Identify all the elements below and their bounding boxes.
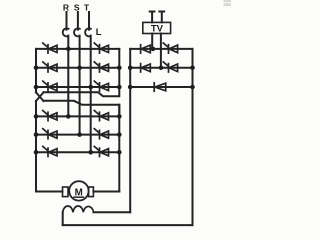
wire field left rail (129, 49, 131, 212)
motor M label (75, 187, 83, 198)
terminal TV primary right (159, 12, 164, 23)
node right rail row3 (117, 85, 122, 90)
wire upper bus to rows1-3 right rail (44, 87, 120, 96)
wire crossover X (36, 92, 44, 101)
wire row 1 (36, 48, 119, 50)
wire phase T vertical (89, 12, 91, 152)
thyristor V2 row2 left (43, 62, 57, 72)
thyristor V9 row3 right (94, 81, 108, 91)
scan smudge top-right corner (224, 0, 232, 6)
wire phase S vertical (78, 12, 80, 135)
motor brush left (63, 187, 69, 197)
node field left rail row3 (128, 85, 133, 90)
thyristor V3 row3 left (43, 81, 57, 91)
wire field row 1 (130, 48, 192, 50)
node left rail row3 (34, 85, 39, 90)
label T (84, 2, 90, 12)
node row2 phase S (77, 66, 82, 71)
node left rail row6 (34, 150, 39, 155)
motor M underline (74, 196, 84, 198)
terminal TV primary left (150, 12, 155, 23)
thyristor V1 row1 left (43, 43, 57, 53)
thyristor V12 row6 right (94, 146, 108, 156)
node row3 phase T (88, 85, 93, 90)
node row1 phase R (66, 47, 71, 52)
wire right rail lower (rows 4-6 to motor) (118, 105, 120, 192)
node left rail row4 (34, 114, 39, 119)
node right rail row5 (117, 132, 122, 137)
label L (96, 27, 102, 37)
wire right rail upper (rows 1-3) (118, 49, 120, 87)
wire row 2 (36, 67, 119, 69)
thyristor V10 row4 right (94, 111, 108, 121)
node field left rail row2 (128, 66, 133, 71)
svg-text:R: R (63, 2, 70, 12)
node right rail row4 (117, 114, 122, 119)
wire row 4 (36, 115, 119, 117)
wire bottom return (63, 224, 193, 226)
svg-text:T: T (84, 2, 90, 12)
motor brush right (89, 187, 94, 197)
wire field row 3 (130, 86, 192, 88)
wire left rail lower (rows 4-6 to motor) (35, 101, 37, 192)
thyristor V11 row5 right (94, 129, 108, 139)
thyristor VT1 field row1 (163, 43, 177, 53)
wire motor left (36, 191, 63, 193)
reactor L phase R coil (63, 28, 69, 36)
node left rail row5 (34, 132, 39, 137)
wire field right rail (192, 49, 194, 225)
transformer TV box (143, 22, 171, 33)
wire row 5 (36, 134, 119, 136)
label R (63, 2, 70, 12)
node TV lead row2 (159, 66, 164, 71)
wire inductor right to field left rail (94, 211, 131, 213)
wire field row 2 (130, 67, 192, 69)
reactor L phase S coil (74, 28, 80, 36)
wire TV secondary right lead (160, 34, 162, 68)
svg-text:L: L (96, 27, 102, 37)
node right rail row2 (117, 66, 122, 71)
wire row 3 (36, 86, 119, 88)
wire phase R vertical (67, 12, 69, 116)
motor M armature circle (69, 181, 88, 200)
node left rail row2 (34, 66, 39, 71)
svg-text:S: S (74, 2, 80, 12)
wire left rail upper (rows 1-3) (35, 49, 37, 93)
wire row 6 (36, 151, 119, 153)
node row4 phase R (66, 114, 71, 119)
diode VD1 field row1 (141, 45, 151, 53)
thyristor V4 row4 left (43, 111, 57, 121)
node row6 phase T (88, 150, 93, 155)
thyristor VT2 field row2 (163, 62, 177, 72)
inductor field winding (63, 206, 94, 212)
thyristor V7 row1 right (94, 43, 108, 53)
label S (74, 2, 80, 12)
wire TV secondary left lead (151, 34, 153, 49)
wire motor right (93, 191, 119, 193)
node field right rail row3 (190, 85, 195, 90)
node field right rail row2 (190, 66, 195, 71)
node row5 phase S (77, 132, 82, 137)
thyristor V6 row6 left (43, 146, 57, 156)
thyristor V8 row2 right (94, 62, 108, 72)
diode VD3 field row3 (154, 83, 166, 91)
diode VD2 field row2 (141, 64, 151, 72)
wire inductor left lead down (62, 212, 64, 225)
node TV lead row1 (151, 47, 156, 52)
thyristor V5 row5 left (43, 129, 57, 139)
reactor L phase T coil (85, 28, 91, 36)
node right rail row6 (117, 150, 122, 155)
transformer TV label (151, 23, 164, 34)
wire lower bus to rows4-6 right rail (44, 101, 120, 117)
